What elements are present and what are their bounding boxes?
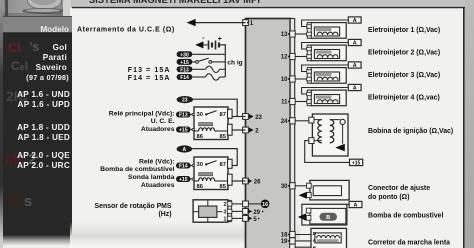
svg-text:Conector de ajuste: Conector de ajuste	[368, 185, 430, 192]
svg-text:F13: F13	[179, 113, 188, 119]
svg-text:F14: F14	[179, 164, 188, 170]
svg-text:+: +	[218, 36, 222, 43]
svg-text:+15: +15	[179, 177, 188, 183]
svg-text:1: 1	[224, 216, 227, 222]
svg-text:Bomba de combustível: Bomba de combustível	[100, 166, 175, 173]
svg-text:16: 16	[262, 202, 268, 208]
svg-text:86: 86	[197, 134, 204, 140]
svg-text:Atuadores: Atuadores	[141, 182, 175, 189]
svg-text:Corretor da marcha lenta: Corretor da marcha lenta	[368, 240, 450, 247]
svg-text:3: 3	[224, 209, 227, 215]
svg-text:+15: +15	[179, 128, 188, 134]
svg-text:Bobina de ignição (Ω,Vac): Bobina de ignição (Ω,Vac)	[368, 128, 453, 135]
svg-text:18: 18	[281, 233, 288, 239]
svg-text:Eletroinjetor 4 (Ω,vac): Eletroinjetor 4 (Ω,vac)	[368, 95, 440, 102]
svg-text:A: A	[353, 63, 357, 69]
svg-text:D: D	[313, 231, 317, 237]
svg-text:12: 12	[281, 55, 288, 61]
svg-text:24: 24	[281, 119, 288, 125]
svg-text:ch ig: ch ig	[227, 60, 242, 67]
svg-text:85: 85	[220, 184, 227, 190]
svg-text:23: 23	[255, 115, 262, 121]
svg-text:A: A	[313, 238, 317, 244]
svg-text:30: 30	[281, 184, 288, 190]
svg-text:(Hz): (Hz)	[158, 211, 171, 218]
svg-text:Atuadores: Atuadores	[141, 126, 175, 133]
svg-text:Bomba de combustível: Bomba de combustível	[368, 213, 444, 220]
svg-text:B: B	[326, 215, 330, 221]
svg-text:+15: +15	[180, 60, 189, 66]
svg-text:11: 11	[281, 100, 288, 106]
svg-text:A: A	[353, 85, 357, 91]
svg-text:F13 = 15A: F13 = 15A	[128, 67, 171, 74]
svg-text:F13: F13	[180, 67, 189, 73]
svg-text:85: 85	[220, 134, 227, 140]
svg-text:29: 29	[253, 210, 260, 216]
svg-text:Aterramento da U.C.E (Ω): Aterramento da U.C.E (Ω)	[77, 26, 175, 33]
svg-text:19: 19	[281, 239, 288, 245]
svg-text:10: 10	[281, 77, 288, 83]
svg-text:30: 30	[197, 112, 203, 118]
svg-text:+15: +15	[352, 160, 361, 166]
svg-text:26: 26	[254, 180, 261, 186]
svg-text:87: 87	[220, 162, 226, 168]
svg-text:Eletroinjetor 2 (Ω,Vac): Eletroinjetor 2 (Ω,Vac)	[368, 50, 440, 57]
svg-text:Relé principal (Vdc):: Relé principal (Vdc):	[109, 111, 175, 118]
svg-text:A: A	[183, 147, 187, 153]
svg-text:Eletroinjetor 3 (Ω,Vac): Eletroinjetor 3 (Ω,Vac)	[368, 72, 440, 79]
svg-text:Sonda lambda: Sonda lambda	[128, 174, 175, 181]
svg-text:+30: +30	[180, 52, 189, 58]
svg-text:F14 = 15A: F14 = 15A	[128, 75, 171, 82]
svg-text:23: 23	[182, 98, 188, 104]
svg-text:Sensor de rotação PMS: Sensor de rotação PMS	[95, 203, 172, 210]
svg-text:87: 87	[220, 112, 226, 118]
svg-text:A: A	[353, 40, 357, 46]
svg-text:-: -	[202, 35, 205, 42]
svg-text:A: A	[354, 202, 358, 208]
svg-text:F14: F14	[180, 75, 189, 81]
svg-text:do ponto (Ω): do ponto (Ω)	[368, 194, 410, 201]
svg-text:Eletroinjetor 1 (Ω,Vac): Eletroinjetor 1 (Ω,Vac)	[368, 27, 440, 34]
svg-text:2: 2	[224, 202, 227, 208]
svg-text:Relé (Vdc):: Relé (Vdc):	[139, 158, 175, 165]
svg-text:A: A	[353, 18, 357, 24]
svg-text:30: 30	[197, 162, 203, 168]
svg-text:13: 13	[281, 32, 288, 38]
svg-text:U. C. E.: U. C. E.	[151, 118, 175, 125]
svg-text:86: 86	[197, 184, 204, 190]
